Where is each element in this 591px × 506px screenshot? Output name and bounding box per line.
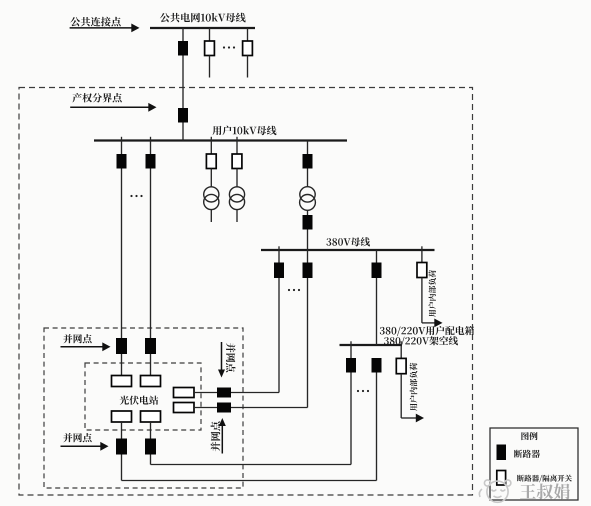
wire 380V bus to breaker overhead [376,250,378,263]
arrow PCC pointer [70,27,132,29]
busbar user 10kV [94,139,347,141]
text distribution box label 380/220V用户配电箱 [380,326,474,336]
junction tick [210,137,212,141]
breaker boundary [178,108,188,123]
transformer T2 [229,187,244,202]
inverter box 5 [174,388,195,398]
junction tick [421,246,423,250]
breaker overhead feeder [372,263,382,279]
inverter box 1 [112,376,132,387]
text legend disconnector label 断路器/隔离开关 [517,475,572,483]
text grid-connection point label top-left 并网点 [63,334,91,343]
text grid-connection point label bottom-left 并网点 [63,433,91,442]
wire 220V bus to disconnector load [400,345,402,358]
junction tick [400,341,402,345]
breaker PV feeder 1 [117,154,127,169]
ellipsis 220V feeders [357,390,359,392]
text overhead line label 380/220V架空线 [384,336,458,346]
legend breaker symbol [497,445,507,461]
disconnector internal load upper [417,263,427,278]
breaker lv loop 2 [372,358,382,373]
wire inverter4 down [150,422,152,439]
wire load drop upper [421,278,423,323]
inverter box 4 [141,411,161,422]
breaker PV bottom-out 2 [145,439,156,455]
wire long drop PV feeder 2 [150,169,152,339]
disconnector internal load lower [396,358,406,373]
wire public bus feeder 3 [247,28,249,42]
wire user bus to breaker PV feeder 1 [121,141,123,155]
wire 380V bus to breaker PV lv2 [307,250,309,263]
dashed boundary box (user installation) [19,88,473,496]
wire breaker to 380/220V bus [376,278,378,345]
text public grid bus label 公共电网10kV母线 [160,13,246,23]
wire breaker to 380V bus [307,230,309,251]
wire to inverter 2 [150,354,152,376]
wire drop PV lv2 [307,278,309,408]
breaker PV right 2 [217,403,231,413]
busbar 380/220V overhead [340,344,403,346]
inverter box 2 [141,376,161,387]
wire user bus to breaker T3 [307,141,309,155]
arrow property boundary pointer [70,106,148,108]
wire stub feeder 2 [209,56,211,78]
wire public bus to breaker [182,28,184,42]
wire transformer to breaker low side [307,210,309,215]
disconnector feeder 3 [243,41,253,56]
text user 10kV bus label 用户10kV母线 [213,126,277,136]
text PV plant label 光伏电站 [120,396,159,405]
ellipsis public feeders [223,46,225,48]
wire inverter3 down [121,422,123,439]
text 380V bus label 380V母线 [326,237,370,246]
breaker PV feeder 2 [146,154,156,169]
text legend title 图例 [521,432,537,440]
breaker PV right 1 [217,388,231,398]
wire stub feeder 3 [247,56,249,78]
wire elbow to PV lv2 [231,407,308,409]
wire run lv loop 2 [122,480,377,482]
busbar public grid 10kV [150,27,255,29]
legend box [490,428,578,500]
wire to inverter 1 [121,354,123,376]
wire stub below T2 [236,210,238,222]
junction tick [236,137,238,141]
breaker lv loop 1 [346,358,356,373]
breaker grid side [178,41,188,56]
legend disconnector symbol [497,471,506,486]
text property boundary label 产权分界点 [72,93,121,103]
breaker PV top-in 2 [145,338,156,354]
wire user bus to disconnector T2 [236,141,238,155]
wire long drop PV feeder 1 [121,169,123,339]
breaker T3 high side [303,154,313,169]
ellipsis user feeders [130,195,132,197]
arrow grid-connection right up [221,426,223,454]
wire drop PV lv1 [278,278,280,393]
wire load elbow upper [422,322,436,324]
dashed box PV plant outer [44,328,243,488]
junction tick [278,246,280,250]
text vertical grid-connection label lower 并网点 [211,421,221,451]
disconnector T2 feeder [232,154,242,169]
wire 380V bus to breaker PV lv1 [278,250,280,263]
breaker T3 low side [303,215,313,230]
wire inverter5 to breaker [194,392,217,394]
text PCC label 公共连接点 [70,17,120,27]
dashed box PV plant inner 光伏电站 [85,363,201,430]
transformer T1 [204,187,219,202]
text vertical internal load label upper 用户内部负荷 [429,270,437,317]
text legend breaker label 断路器 [514,450,540,458]
wire 220V bus to breaker 1 [350,345,352,358]
transformer T3 10kV/380V [300,187,315,202]
arrow grid-connection top-left [61,346,104,348]
wire run lv loop 1 [151,464,352,466]
arrow internal load lower [416,414,424,423]
arrow grid-connection bottom-left [61,445,102,447]
wire inverter6 to breaker [194,407,217,409]
wire PV bottom-out 2 [150,455,152,465]
wire 380V bus to disconnector load [421,250,423,263]
disconnector T1 feeder [206,154,216,169]
wire drop lv loop 1 [350,373,352,465]
ellipsis 380V feeders [288,289,290,291]
arrow grid-connection right down [221,342,223,371]
wire drop lv loop 2 [376,373,378,481]
wire PV bottom-out 1 [121,455,123,481]
wire load drop lower [400,374,402,418]
watermark cartoon figure [479,480,511,502]
text vertical grid-connection label right 并网点 [226,343,236,372]
wire breaker to transformer T3 [307,169,309,188]
wire user bus to disconnector T1 [210,141,212,155]
wire load elbow lower [401,417,417,419]
text watermark 王叔娟 [520,483,570,499]
inverter box 3 [112,411,132,422]
inverter box 6 [174,403,195,413]
breaker PV bottom-out 1 [116,439,127,455]
wire elbow to PV lv1 [231,392,279,394]
wire breaker to user bus [182,123,184,141]
breaker PV lv feeder 2 [303,263,313,279]
wire public bus feeder 2 [209,28,211,42]
disconnector feeder 2 [205,41,215,56]
wire disconnector to transformer T1 [210,169,212,188]
wire stub below T1 [210,210,212,222]
breaker PV top-in 1 [116,338,127,354]
arrow internal load upper [434,319,442,328]
breaker PV lv feeder 1 [274,263,284,279]
busbar 380V [261,249,435,251]
junction tick [150,137,152,141]
wire user bus to breaker PV feeder 2 [150,141,152,155]
text vertical internal load label lower 用户内部负荷 [410,363,418,411]
junction tick [350,341,352,345]
wire between breakers [182,56,184,109]
junction tick [121,137,123,141]
wire disconnector to transformer T2 [236,169,238,188]
